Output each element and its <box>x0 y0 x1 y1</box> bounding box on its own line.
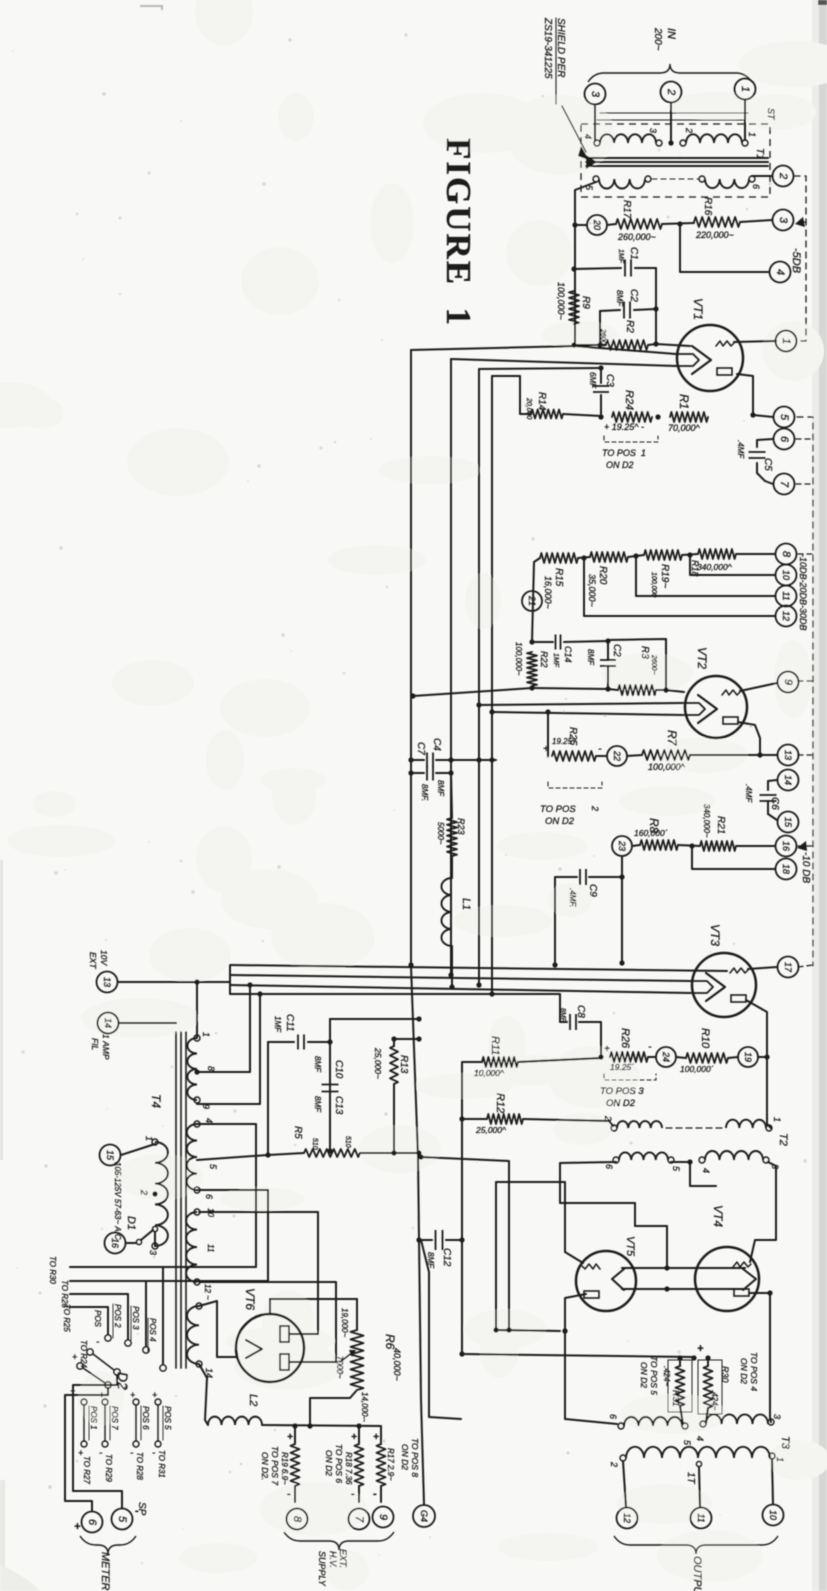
wire T3 sec right lead <box>772 1459 773 1504</box>
svg-text:R9: R9 <box>580 296 591 309</box>
wire input 2 lead <box>670 103 672 143</box>
svg-text:+: + <box>351 1432 357 1443</box>
scan corner top-right <box>818 0 827 5</box>
svg-text:+: + <box>604 1044 610 1055</box>
svg-text:1MF: 1MF <box>273 1016 282 1033</box>
svg-text:-: - <box>152 1448 156 1459</box>
wire W2 heater route a <box>163 1124 256 1267</box>
resistor R8 <box>640 840 678 850</box>
svg-text:C11: C11 <box>284 1014 295 1032</box>
svg-text:5: 5 <box>671 1166 681 1172</box>
svg-text:25,000^: 25,000^ <box>475 1125 507 1135</box>
svg-text:6: 6 <box>604 1164 614 1169</box>
fuse D1 <box>126 1242 136 1244</box>
T2 primary coil right <box>726 1120 766 1128</box>
svg-text:VT2: VT2 <box>695 647 709 669</box>
svg-text:11: 11 <box>696 1513 706 1522</box>
resistor R16 <box>694 217 740 227</box>
wire VT2 cathode line a <box>479 703 682 705</box>
svg-text:10: 10 <box>781 570 791 580</box>
svg-text:OUTPUT: OUTPUT <box>691 1556 703 1591</box>
wire filter bottom rail <box>197 1153 304 1160</box>
R6 tap arrow <box>340 1352 353 1362</box>
svg-text:20: 20 <box>592 219 602 230</box>
svg-text:R23: R23 <box>456 818 466 835</box>
terminal 3 tap <box>773 210 794 231</box>
svg-text:G4: G4 <box>419 1510 429 1522</box>
svg-text:VT4: VT4 <box>711 1205 725 1227</box>
wire R8-R21 <box>678 845 700 846</box>
svg-text:19.25^: 19.25^ <box>552 737 576 746</box>
terminal 10 tap <box>776 565 797 586</box>
svg-text:TO R29: TO R29 <box>104 1454 113 1482</box>
terminal 16 ext <box>105 1233 126 1254</box>
svg-text:ON D2: ON D2 <box>639 1362 649 1388</box>
resistor R3 <box>618 685 656 695</box>
svg-text:4: 4 <box>774 269 786 275</box>
svg-text:10V: 10V <box>99 950 109 966</box>
svg-text:+: + <box>287 1432 293 1443</box>
terminal 5 tap <box>774 407 795 428</box>
wire T1 secondary dashed center <box>652 178 698 180</box>
svg-text:C2: C2 <box>628 289 639 302</box>
resistor R12 <box>487 1114 523 1124</box>
svg-text:10: 10 <box>768 1510 778 1520</box>
capacitor C1 <box>625 260 631 277</box>
svg-text:19.25´: 19.25´ <box>610 1062 634 1072</box>
svg-text:ON D2: ON D2 <box>739 1358 749 1384</box>
resistor R18b 7.36 ohm <box>358 1426 360 1444</box>
svg-text:3: 3 <box>589 91 601 98</box>
wire T4 pin8 to Y3 <box>197 985 250 1072</box>
wire tap10 feed <box>690 555 775 575</box>
svg-text:FIL: FIL <box>90 1038 100 1051</box>
svg-text:VT3: VT3 <box>708 924 722 946</box>
capacitor C2b <box>600 660 616 666</box>
svg-text:R3: R3 <box>639 646 650 659</box>
svg-text:2600~: 2600~ <box>650 654 657 675</box>
wire node to tap13 <box>760 754 777 756</box>
svg-text:200~: 200~ <box>652 27 663 51</box>
svg-text:R19~: R19~ <box>659 564 670 588</box>
svg-text:POS 3: POS 3 <box>131 1306 140 1330</box>
svg-text:C7: C7 <box>415 742 426 755</box>
wire D2 contact pos4 <box>70 1267 163 1364</box>
svg-text:R10: R10 <box>699 1028 711 1049</box>
svg-text:1: 1 <box>144 1136 154 1141</box>
svg-text:-: - <box>99 1448 103 1459</box>
terminal G4 <box>413 1505 435 1527</box>
svg-text:23: 23 <box>617 840 627 851</box>
svg-text:R16: R16 <box>702 197 713 216</box>
inductor L1 <box>451 856 453 878</box>
brace output <box>614 1536 778 1554</box>
terminal 10 output <box>763 1505 784 1526</box>
T3 primary coil right <box>706 1414 768 1424</box>
wire T1 top routing b <box>597 119 745 121</box>
svg-text:POS 5: POS 5 <box>163 1406 172 1430</box>
terminal 14 tap <box>778 770 799 791</box>
wire R10 to 19 <box>728 1057 738 1058</box>
wire W4 pin14 to L2 <box>199 1364 208 1425</box>
capacitor C14 <box>556 635 561 650</box>
resistor R6 <box>356 1299 358 1330</box>
wire input 1 lead <box>744 100 746 140</box>
wire 24 to R10 <box>676 1057 686 1058</box>
wire R2 left <box>574 344 606 346</box>
svg-text:6: 6 <box>204 1194 214 1199</box>
tube VT4 <box>695 1247 759 1311</box>
svg-text:6MF: 6MF <box>588 372 597 389</box>
terminal 8 supply <box>287 1509 308 1530</box>
terminal 4 tap <box>770 262 791 283</box>
svg-text:4: 4 <box>583 134 593 139</box>
svg-text:2: 2 <box>590 805 600 811</box>
svg-text:R19 6.9~: R19 6.9~ <box>280 1452 289 1485</box>
svg-text:L2: L2 <box>247 1394 259 1406</box>
svg-text:ZS19-341225: ZS19-341225 <box>542 17 553 79</box>
svg-text:8MF: 8MF <box>559 1008 566 1023</box>
terminal 7 supply <box>349 1509 370 1530</box>
resistor R24 <box>612 412 652 422</box>
svg-text:SHIELD PER: SHIELD PER <box>555 18 566 77</box>
wire VT6 cathode top <box>270 1299 357 1314</box>
svg-text:TO POS 3: TO POS 3 <box>600 1086 644 1097</box>
svg-text:160,000´: 160,000´ <box>634 828 668 838</box>
svg-text:T2: T2 <box>777 1133 789 1146</box>
svg-text:D1: D1 <box>125 1216 137 1230</box>
wire C6 to tap15 <box>768 801 777 820</box>
wire R3 to VT2 grid <box>656 690 684 692</box>
svg-text:8MF: 8MF <box>615 290 624 307</box>
svg-text:6: 6 <box>751 184 761 189</box>
svg-text:R18 7.36: R18 7.36 <box>344 1452 353 1485</box>
svg-text:-: - <box>287 1488 291 1500</box>
resistor R15 <box>540 553 578 563</box>
wire T2 pin3 route <box>750 1162 776 1262</box>
dashed stub tap9 <box>798 680 813 682</box>
T1 primary winding right <box>686 134 742 143</box>
T3 secondary coil <box>626 1447 770 1458</box>
wire bus B top <box>451 359 676 366</box>
wire R12 to T2 pin2 <box>523 1119 613 1126</box>
resistor R2 <box>606 340 648 350</box>
svg-text:+ 19.25^ -: + 19.25^ - <box>604 422 644 432</box>
wire tap12 feed <box>584 558 775 616</box>
svg-text:POS 2: POS 2 <box>113 1304 122 1328</box>
bracket R24 to pos1 <box>604 436 658 442</box>
svg-text:340,000~: 340,000~ <box>702 804 711 838</box>
svg-text:17: 17 <box>783 962 793 973</box>
svg-text:70,000^: 70,000^ <box>668 423 701 433</box>
T2 secondary coil right <box>705 1151 763 1160</box>
svg-text:-10DB-20DB-30DB: -10DB-20DB-30DB <box>798 554 808 631</box>
svg-text:C1: C1 <box>628 247 639 260</box>
brace input <box>588 64 752 82</box>
svg-text:7: 7 <box>353 1516 365 1523</box>
svg-text:TO POS 5: TO POS 5 <box>649 1356 659 1395</box>
svg-text:-: - <box>598 743 602 755</box>
T4 core <box>175 1032 177 1368</box>
wire T3 sec tap lead <box>699 1467 700 1507</box>
wire rail to 20 <box>575 224 587 226</box>
T1 secondary winding left <box>599 179 645 189</box>
svg-text:R7: R7 <box>665 730 679 747</box>
brace ext hv supply <box>284 1532 394 1550</box>
T2 primary dashed <box>666 1127 722 1129</box>
resistor R1 <box>670 412 708 422</box>
terminal 3 input <box>585 84 606 105</box>
svg-text:14,000--: 14,000-- <box>360 1392 369 1422</box>
terminal 13 tap <box>778 745 799 766</box>
svg-text:1: 1 <box>775 1457 785 1462</box>
wire L2 to bias line <box>262 1425 380 1426</box>
svg-text:R17: R17 <box>621 200 632 219</box>
wire R2 to VT1 grid <box>648 344 690 346</box>
capacitor C10 C13 <box>322 1085 339 1092</box>
svg-text:+: + <box>130 1390 135 1400</box>
svg-text:ON D2.: ON D2. <box>260 1452 270 1480</box>
capacitor C7 <box>411 772 424 774</box>
wire W4 to VT6 filament <box>199 1301 237 1357</box>
svg-text:1: 1 <box>201 1032 211 1037</box>
wire W3 pin12 to VT6 plate <box>199 1282 336 1362</box>
junction R20-R19 <box>633 553 638 558</box>
terminal 13 ext <box>97 972 118 993</box>
wire VT4 plate route <box>749 1293 771 1422</box>
svg-text:1: 1 <box>772 1117 782 1122</box>
wire T1 pin6 to tap2 <box>752 175 772 177</box>
wire hbus Y4 <box>230 994 567 1022</box>
terminal 9 tap <box>778 672 799 693</box>
capacitor C11 <box>268 1041 294 1043</box>
terminal 19 <box>738 1047 758 1067</box>
svg-text:9: 9 <box>782 679 794 685</box>
svg-text:+: + <box>99 1390 104 1400</box>
svg-text:8MF: 8MF <box>313 1056 322 1073</box>
svg-text:11: 11 <box>206 1244 215 1252</box>
tube VT2 <box>685 676 747 738</box>
wire T2 pin6 route <box>560 1162 667 1268</box>
wire R12 left <box>462 1118 487 1120</box>
svg-text:1: 1 <box>739 86 751 92</box>
wire R19-R18 <box>682 554 698 555</box>
svg-text:220,000~: 220,000~ <box>695 230 734 240</box>
svg-text:.424~: .424~ <box>710 1390 719 1411</box>
svg-text:TO R30: TO R30 <box>48 1256 57 1284</box>
svg-text:R31: R31 <box>671 1390 681 1407</box>
svg-text:.4MF.: .4MF. <box>568 888 577 907</box>
svg-text:18: 18 <box>781 864 791 874</box>
svg-text:3: 3 <box>772 1414 782 1419</box>
terminal 16 tap <box>776 836 797 857</box>
svg-text:340,000^: 340,000^ <box>697 562 733 572</box>
wire R11 left rail <box>462 1062 482 1354</box>
wire heater bottom link <box>493 1327 498 1332</box>
svg-text:3: 3 <box>777 217 789 224</box>
wire hbus left rail <box>229 965 231 994</box>
svg-text:TO POS 6: TO POS 6 <box>334 1444 344 1483</box>
svg-text:R2: R2 <box>624 320 635 333</box>
svg-text:100,000^: 100,000^ <box>648 762 686 772</box>
wire bus A top <box>411 346 575 350</box>
box R30 <box>698 1360 722 1414</box>
wire R5 to rail <box>360 1152 419 1154</box>
dashed stub tap16 <box>798 845 813 847</box>
svg-text:.4MF: .4MF <box>744 784 753 803</box>
svg-text:2: 2 <box>139 1189 149 1195</box>
svg-text:24: 24 <box>661 1051 671 1062</box>
svg-text:VT5: VT5 <box>624 1236 636 1257</box>
wire VT2 plate out <box>738 722 760 755</box>
svg-text:ST: ST <box>766 108 776 121</box>
wire C9 leads <box>589 876 622 878</box>
svg-text:.424~: .424~ <box>662 1366 671 1387</box>
wire VT3 plate out <box>746 1000 767 1057</box>
wire aux rail to bias corner <box>421 1240 461 1419</box>
T4 winding W3 <box>186 1212 197 1282</box>
resistor R20 <box>590 552 628 562</box>
wire cathode link top <box>622 1267 745 1269</box>
wire bias feed <box>462 1354 692 1357</box>
wire tap18 feed <box>692 846 775 869</box>
svg-text:13: 13 <box>783 750 793 760</box>
D2 wiper arm 2 <box>77 1363 83 1369</box>
svg-text:C4: C4 <box>431 738 442 751</box>
dashed stub tap8 <box>798 553 813 555</box>
wire bus A cathode <box>575 346 676 354</box>
svg-text:19: 19 <box>743 1052 753 1062</box>
T4 winding W4 <box>187 1306 199 1364</box>
resistor R11 <box>482 1057 518 1067</box>
terminal 21 <box>522 591 542 611</box>
svg-text:C8: C8 <box>575 1005 586 1018</box>
terminal 24 <box>656 1047 676 1067</box>
svg-text:METER: METER <box>99 1552 111 1591</box>
wire R15-R20 <box>578 557 590 558</box>
svg-text:T4: T4 <box>149 1094 163 1108</box>
VT6 filament <box>246 1340 262 1358</box>
svg-text:C5: C5 <box>762 458 773 471</box>
wire 13 to T4 pin1 <box>196 982 198 1038</box>
resistor R10 <box>686 1053 728 1063</box>
resistor R13 <box>393 1039 395 1046</box>
capacitor C4 <box>411 759 424 761</box>
terminal 11 output <box>691 1508 712 1529</box>
terminal 6 tap <box>774 429 795 450</box>
svg-text:+: + <box>152 1390 157 1400</box>
svg-text:R12: R12 <box>494 1093 506 1113</box>
terminal 17 tap <box>778 957 799 978</box>
resistor R7 <box>642 750 690 760</box>
wire mid branch <box>421 1157 509 1330</box>
svg-text:TO R25: TO R25 <box>62 1304 71 1332</box>
svg-text:12: 12 <box>622 1513 632 1523</box>
svg-text:EXT.: EXT. <box>338 1549 348 1568</box>
svg-text:R24: R24 <box>623 390 635 410</box>
svg-text:-: - <box>648 1041 652 1053</box>
wire vertical bus C <box>478 369 480 986</box>
svg-text:16: 16 <box>110 1238 120 1248</box>
wire grid box top right <box>608 639 666 690</box>
svg-text:POS 7: POS 7 <box>110 1406 119 1430</box>
wire hbus Y3 <box>230 985 690 993</box>
svg-text:POS 1: POS 1 <box>89 1406 98 1430</box>
T1 primary winding left <box>600 134 656 143</box>
wire VT3 grid to tap17 <box>748 967 777 969</box>
D2 contact pos1 lower <box>81 1399 87 1405</box>
svg-text:1MF: 1MF <box>552 653 559 668</box>
svg-text:R20: R20 <box>597 566 608 585</box>
svg-text:15: 15 <box>783 817 793 828</box>
dashed arrow to 3 <box>799 221 806 223</box>
resistor R26 <box>610 1052 648 1062</box>
wire C3 leads <box>600 368 602 383</box>
scan mark top-left <box>140 6 162 10</box>
svg-text:16,000~: 16,000~ <box>543 576 553 609</box>
wire VT2 cathode line b <box>492 712 682 715</box>
wire D2 contact pos3 <box>70 1281 146 1346</box>
terminal 14 ext <box>98 1013 119 1034</box>
svg-text:+: + <box>543 744 549 755</box>
terminal 1 tap <box>776 331 797 352</box>
wire grid box bottom rail <box>532 688 618 690</box>
svg-text:8MF: 8MF <box>436 780 445 797</box>
svg-text:ON D2: ON D2 <box>606 460 634 470</box>
svg-text:C9: C9 <box>587 884 598 897</box>
svg-text:16: 16 <box>781 841 791 851</box>
terminal 9 supply <box>373 1507 394 1528</box>
svg-text:VT1: VT1 <box>691 298 705 320</box>
junction R19-R18 <box>687 552 692 557</box>
VT6 plate bottom <box>280 1354 289 1370</box>
svg-text:35,000~: 35,000~ <box>587 574 597 607</box>
wire C2 leads <box>600 310 620 311</box>
svg-text:5: 5 <box>116 1516 128 1523</box>
svg-text:+: + <box>74 1521 81 1533</box>
svg-text:-: - <box>351 1488 355 1500</box>
svg-text:-: - <box>373 1488 377 1500</box>
svg-text:260,000~: 260,000~ <box>617 232 656 242</box>
T2 secondary coil left <box>619 1152 668 1160</box>
svg-text:40,000~: 40,000~ <box>392 1348 402 1381</box>
svg-text:1T: 1T <box>685 1472 696 1485</box>
scan bottom-left corner <box>0 1565 40 1591</box>
dashed stub tap17 <box>798 965 813 967</box>
svg-text:100,000: 100,000 <box>650 572 657 597</box>
wire plate to tap5 <box>753 415 773 417</box>
svg-text:21: 21 <box>527 595 537 606</box>
svg-text:TO R31: TO R31 <box>157 1450 166 1478</box>
tube VT5 <box>576 1251 636 1311</box>
wire R7 to plate node <box>690 754 760 756</box>
svg-text:SP: SP <box>136 1502 147 1516</box>
T4 winding W1 <box>187 1038 197 1100</box>
terminal 22 <box>607 746 627 766</box>
svg-text:C2: C2 <box>611 644 622 657</box>
svg-text:-10 DB: -10 DB <box>800 852 811 883</box>
terminal 23 <box>612 836 632 856</box>
svg-text:-5DB: -5DB <box>790 248 802 273</box>
wire VT5 grid route <box>496 1182 583 1331</box>
wire C14 to C2 top <box>564 641 608 642</box>
wire C8 to R26 node <box>579 1022 601 1056</box>
svg-text:5: 5 <box>682 1440 692 1446</box>
wire D2 loop 1 <box>65 1388 108 1511</box>
wire tap14 to C6 <box>768 780 777 790</box>
svg-text:8MF: 8MF <box>586 649 595 666</box>
svg-text:14: 14 <box>783 775 793 785</box>
